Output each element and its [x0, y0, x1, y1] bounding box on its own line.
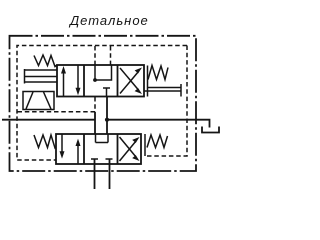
- svg-text:Детальное: Детальное: [68, 13, 149, 28]
